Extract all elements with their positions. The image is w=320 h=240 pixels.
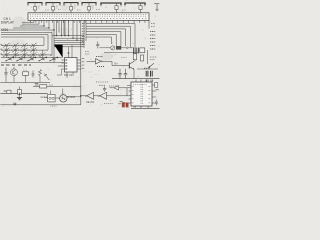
inductor L1 [28, 3, 42, 13]
capacitor C11 [155, 83, 159, 90]
capacitor C16 [14, 103, 16, 106]
label 35t [109, 85, 118, 87]
wire lower-left bus2 [0, 81, 50, 83]
key switch contacts row4 [5, 57, 58, 61]
wire U1 pin drops [57, 20, 78, 40]
capacitor C1 [4, 68, 7, 78]
resistor R8 [133, 54, 136, 60]
capacitor C15 [147, 79, 153, 81]
label pins U6 [118, 102, 123, 104]
wire rail B [80, 20, 82, 104]
inductor L5 [101, 3, 121, 13]
wire ground bus [112, 78, 160, 80]
wire matrix column lines [7, 45, 43, 57]
wire W3 [133, 60, 136, 79]
wire U2 feed [54, 45, 72, 58]
junction dots center [56, 35, 78, 41]
wire matrix row line 4 [1, 58, 64, 63]
power amp IC U6 [131, 82, 152, 106]
capacitor C3 [18, 87, 22, 98]
display driver IC U1 [28, 13, 149, 21]
svg-text:1308: 1308 [69, 95, 75, 99]
potentiometer arrow [148, 63, 154, 68]
inverter U4B [98, 92, 106, 99]
vertical label column [82, 59, 84, 69]
junction dot D1 [67, 96, 69, 98]
capacitor C20 [154, 4, 159, 11]
U1 pin stubs [31, 20, 145, 23]
label R10 [121, 57, 127, 59]
row4 key labels [6, 55, 53, 57]
wire center bus [52, 36, 84, 47]
U1 pin number labels [82, 24, 85, 45]
label 990 [144, 67, 150, 69]
capacitor C9 [146, 71, 148, 77]
wire bottom bus [131, 80, 160, 109]
wire U1 pin26 stub [148, 20, 150, 28]
label 8-2 [85, 52, 90, 55]
wire rail C [53, 30, 55, 63]
wire matrix row lines [1, 45, 52, 55]
inverter U3A [96, 59, 103, 64]
label below U3A [97, 66, 105, 68]
capacitor C10 [151, 71, 153, 77]
optocoupler U7 [116, 46, 133, 49]
key switch contacts [2, 45, 46, 56]
inductor L4 [82, 3, 96, 13]
resistor R1 [23, 70, 29, 75]
wire bus left fan [1, 20, 54, 30]
U2 bottom stubs [67, 72, 73, 78]
label ti [51, 105, 57, 107]
inductor L6 [125, 3, 145, 13]
U6 right pins [152, 85, 156, 103]
capacitor C8 [124, 69, 127, 79]
inductor L3 [64, 3, 78, 13]
wire bottom-left rail [0, 104, 81, 106]
inverter U4A [85, 92, 93, 99]
junction dots fan [43, 25, 54, 30]
label row [96, 81, 109, 83]
label 5% [150, 57, 157, 59]
capacitor C2 [32, 71, 35, 78]
matrix row labels [0, 44, 2, 54]
U2 right pins [77, 60, 81, 69]
key switches row4 [6, 57, 58, 61]
wire W6 [67, 96, 81, 98]
wire cluster drops [6, 75, 40, 82]
resistor R4 [40, 85, 47, 88]
capacitor C7 [118, 69, 121, 79]
transistor Q1 [129, 61, 134, 69]
label shield [104, 103, 113, 105]
svg-text:DM 12: DM 12 [64, 73, 73, 77]
wire W8 [110, 88, 132, 96]
wire bottom-left bus [0, 92, 47, 94]
red inspection stamp [122, 102, 129, 107]
wire W9 [104, 51, 138, 53]
inductor L2 [46, 3, 60, 13]
svg-text:DISPLAY: DISPLAY [1, 20, 15, 24]
capacitor C13 [134, 107, 136, 108]
wire W2 [87, 61, 130, 65]
label eq [35, 84, 39, 85]
diode VD1 [44, 74, 49, 81]
label above U3A [96, 56, 103, 58]
wire W1 [147, 50, 149, 64]
U2 top pin [68, 52, 72, 57]
svg-text:Gr1•I: Gr1•I [41, 95, 47, 99]
label row P [1, 64, 31, 66]
resistor R9 [141, 55, 144, 61]
junction dot D2 [80, 95, 82, 97]
handwriting marks [88, 72, 99, 77]
U6 left pins [125, 86, 132, 103]
wire rail A [83, 21, 85, 48]
wire matrix feed bends [1, 32, 52, 55]
timer IC U2 [65, 58, 78, 73]
resistor R7 [140, 48, 145, 53]
wire right nest bus [86, 24, 135, 48]
label ki [151, 24, 155, 27]
U2 left pins [58, 60, 65, 69]
label 01u [49, 84, 53, 86]
label CH1 DISPLAY [1, 17, 15, 25]
capacitor C14 [103, 87, 106, 92]
microphone BM1 [55, 89, 67, 103]
svg-text:SE 8I4: SE 8I4 [86, 100, 95, 104]
trimmer RP1 [111, 46, 115, 50]
svg-text:B+: B+ [115, 62, 119, 66]
wire nest rail [85, 20, 87, 41]
capacitor C6 [134, 48, 139, 54]
capacitor C12 [155, 100, 158, 106]
wire W7 [81, 95, 131, 97]
label C5 [99, 84, 105, 86]
wire W4 [137, 68, 158, 70]
resistor R2 [38, 70, 41, 79]
wire R6 link [99, 47, 110, 49]
wire U2 lower-left [57, 69, 62, 75]
labels above U1 [45, 9, 126, 12]
transistor Q2 [11, 67, 18, 76]
net name labels right [150, 32, 155, 50]
wire W5 [33, 86, 81, 88]
resistor R3 [4, 90, 12, 93]
capacitor C5 [96, 42, 99, 49]
inverter U5A [114, 86, 119, 90]
relay K1 [44, 91, 55, 102]
ground [17, 98, 22, 100]
key switches S1-S13 [3, 43, 45, 57]
